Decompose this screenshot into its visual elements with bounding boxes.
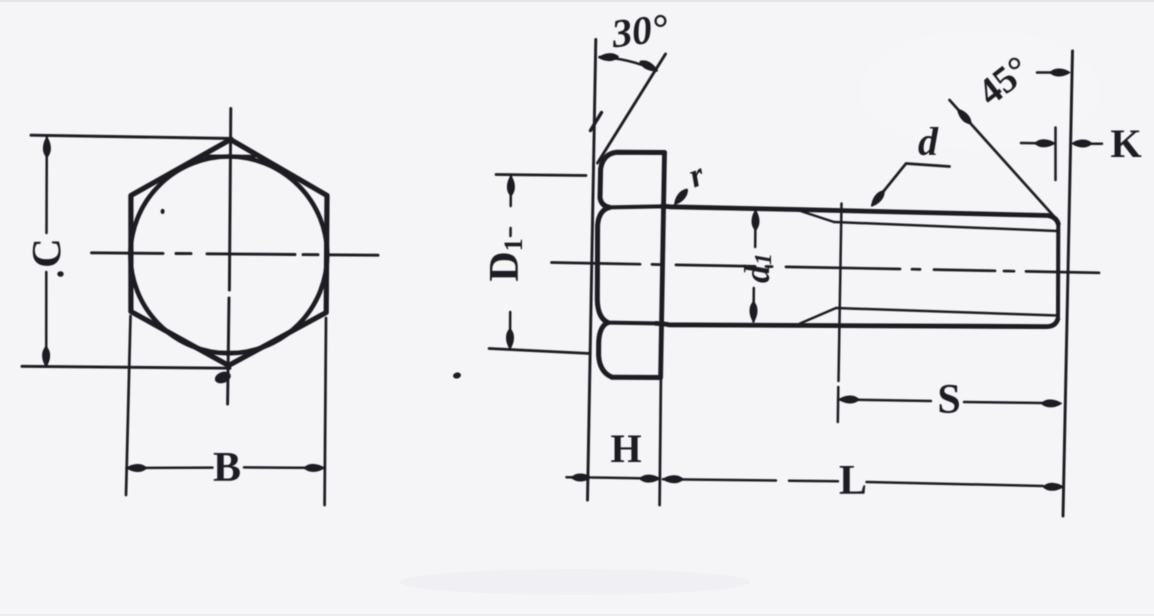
chamfer corner extension line [1054, 128, 1057, 181]
dimension H line outside left [567, 476, 579, 479]
L arrow left [663, 476, 683, 483]
shank top line [662, 206, 1059, 224]
K arrow right-side [1072, 140, 1092, 147]
dimension D1 line lower [509, 312, 512, 349]
dimension C extension line bottom [22, 366, 230, 368]
30 arc arrow left [598, 53, 618, 61]
head bottom face left edge [599, 323, 612, 378]
head top face silhouette [600, 152, 665, 207]
S arrow left [839, 396, 859, 403]
30 degree dimension arc [600, 57, 657, 71]
head face line upper [610, 206, 662, 207]
head bottom edge [612, 375, 661, 380]
svg-text:30°: 30° [608, 5, 670, 57]
d leader line [873, 164, 950, 206]
45 degree line [950, 100, 1056, 218]
head right face (bearing face) [661, 153, 665, 378]
dimension D1 line upper [509, 176, 512, 236]
bolt tip end face [1056, 224, 1060, 319]
thread root line top [834, 222, 1058, 231]
thread runout slant bottom [800, 308, 836, 324]
corner chamfer chord top [206, 154, 254, 158]
d1 arrow down [750, 302, 757, 322]
noise dot below C [57, 271, 63, 277]
30 degree slanted line [598, 54, 666, 163]
svg-text:L: L [839, 458, 867, 504]
hexagon bolt head (front view) [131, 140, 327, 366]
svg-text:H: H [610, 426, 641, 471]
chamfer circle [130, 157, 327, 354]
dimension L line [663, 479, 1043, 486]
dimension K line left [1021, 142, 1040, 145]
head bearing face extension line [660, 379, 661, 505]
noise dot between figures [452, 372, 461, 380]
corner chamfer chord bottom [205, 351, 253, 355]
D1 arrow down [507, 329, 514, 349]
K arrow left-side [1035, 140, 1055, 147]
bolt tip extension line [1063, 51, 1073, 516]
S arrow right [1042, 400, 1062, 407]
dimension B arrow right [304, 464, 324, 471]
thread root line bottom [836, 308, 1058, 316]
svg-text:C: C [23, 238, 69, 268]
dimension d1 line upper [754, 211, 757, 248]
head middle face left edge [597, 207, 609, 322]
dimension B extension line right [325, 318, 326, 505]
H arrow left [572, 474, 592, 481]
dimension C extension line top [31, 135, 232, 138]
45 pointer dash to end face [1037, 71, 1052, 74]
45 arrow on line [955, 107, 973, 126]
d1 arrow up [752, 210, 759, 230]
dimension S line right [964, 402, 1043, 403]
dimension B extension line left [126, 316, 131, 495]
D1 arrow up [507, 176, 514, 196]
dimension C arrow down [43, 347, 50, 367]
faint smudge [400, 569, 750, 595]
45 pointer arrow [1050, 69, 1070, 76]
30 arc arrow right [638, 58, 659, 73]
L arrow right [1044, 483, 1064, 490]
H arrow right [640, 475, 660, 482]
svg-text:K: K [1110, 121, 1141, 166]
head left face extension line [588, 40, 596, 501]
svg-text:S: S [937, 377, 960, 423]
dimension S extension line [838, 204, 842, 423]
vertical centerline of hexagon [228, 109, 231, 405]
svg-text:B: B [213, 445, 241, 491]
thread runout slant top [796, 210, 834, 223]
svg-text:d: d [918, 119, 939, 164]
noise dot near hexagon [161, 209, 165, 214]
ink blob at bottom vertex [213, 370, 232, 386]
tick on extension line [591, 113, 602, 131]
head face line lower [608, 321, 656, 326]
dimension d1 line lower [752, 288, 755, 322]
d leader arrow [869, 189, 887, 209]
dimension D1 extension line bottom [489, 349, 590, 354]
dimension B line [127, 466, 325, 469]
dimension H line [592, 478, 661, 479]
r leader arrow [672, 187, 690, 207]
dimension D1 extension line top [496, 175, 586, 176]
shank bottom line [656, 319, 1058, 327]
dimension S line left [839, 400, 932, 402]
dimension K line right [1090, 142, 1102, 145]
dimension B arrow left [127, 465, 147, 472]
bolt centerline [552, 263, 1100, 273]
dimension C line [45, 138, 48, 367]
dimension C arrow up [43, 137, 50, 157]
horizontal centerline of hexagon [92, 253, 379, 255]
